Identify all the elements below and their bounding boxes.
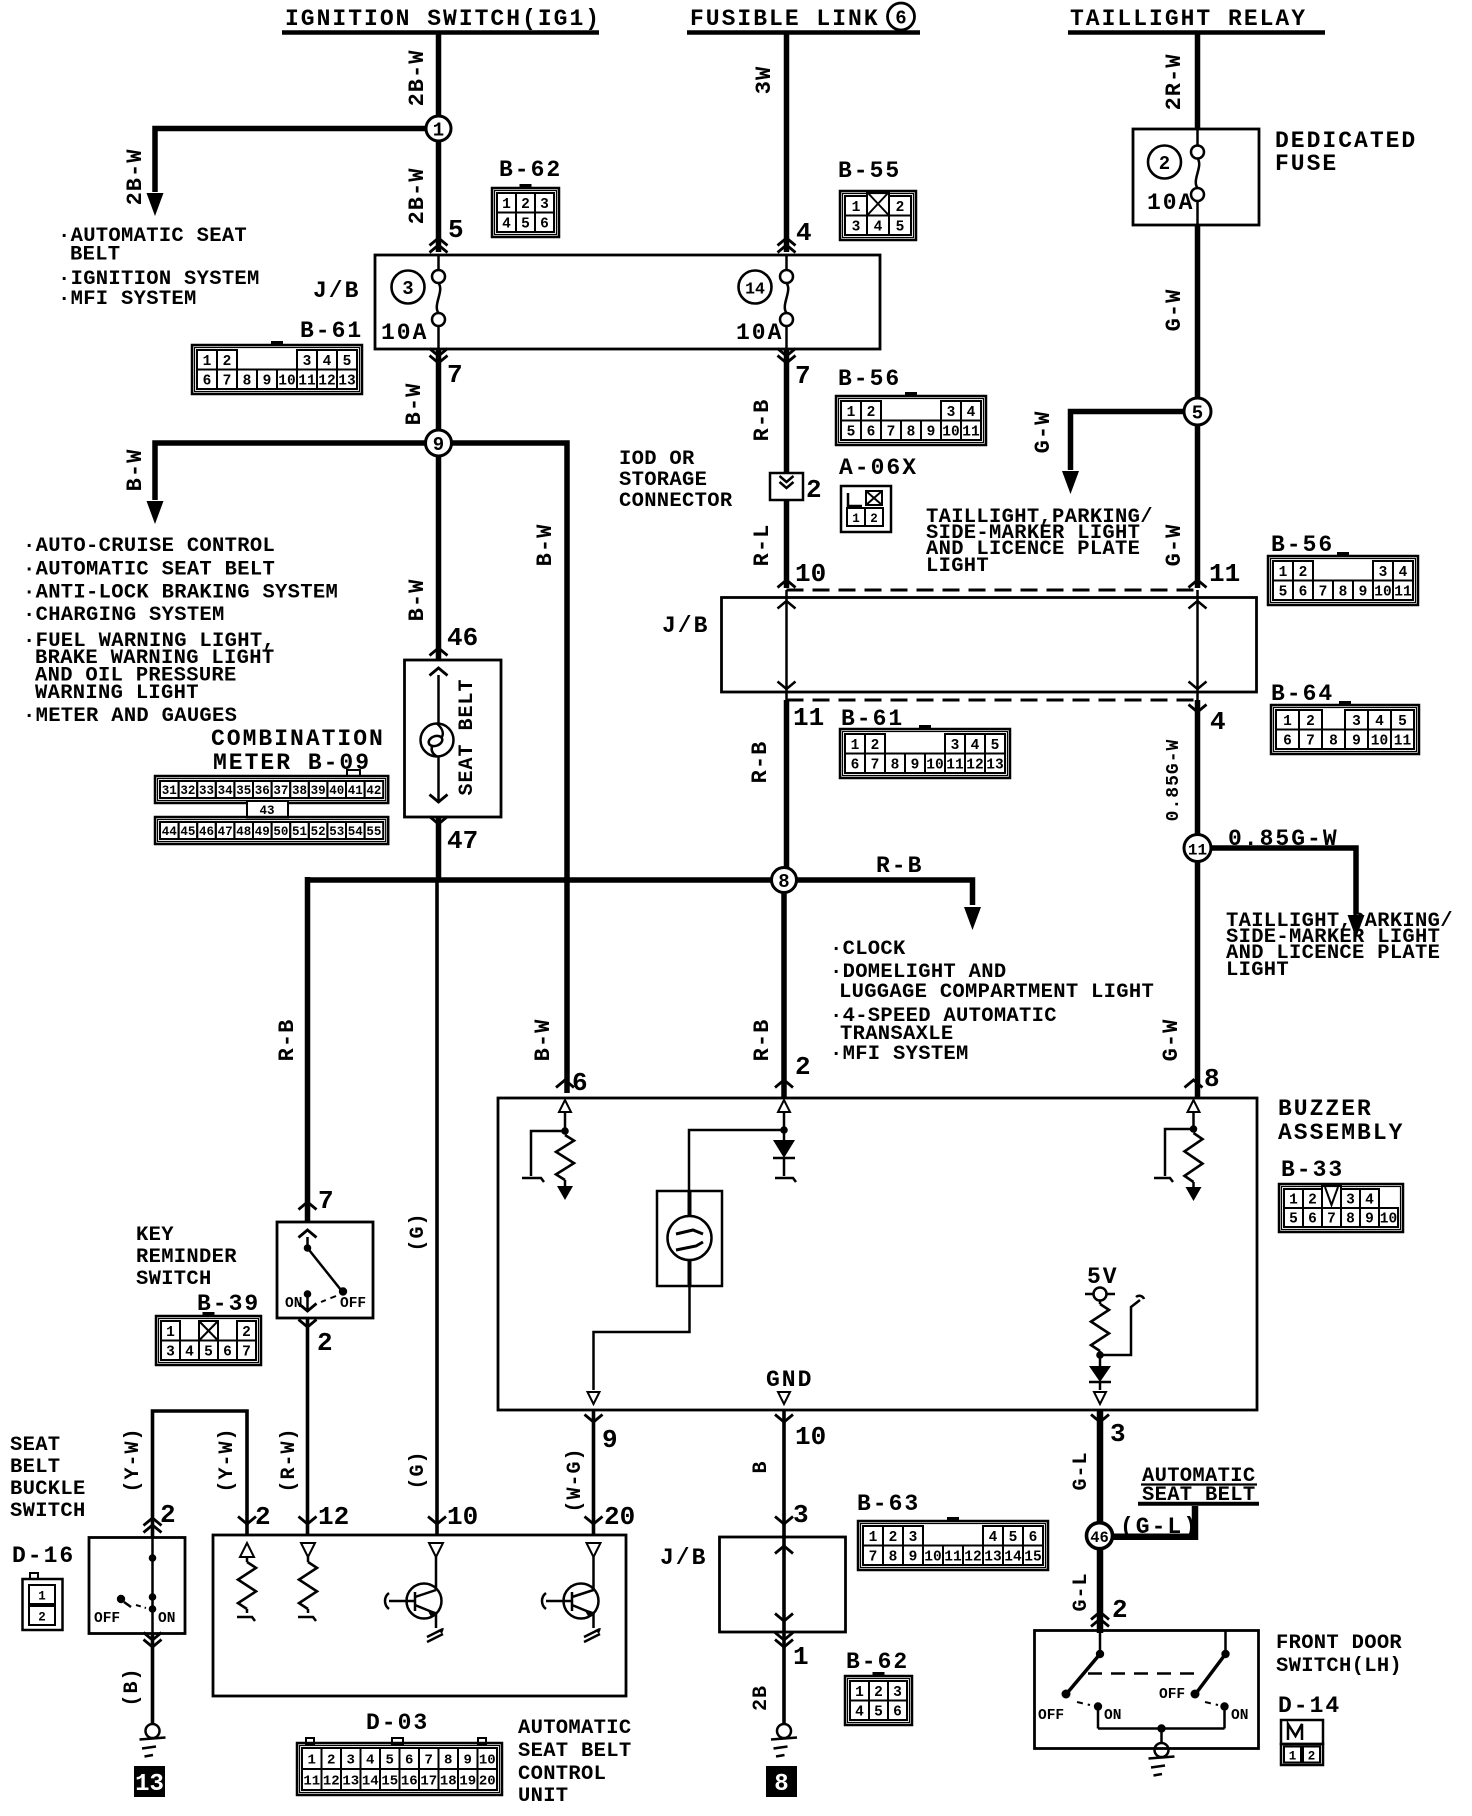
svg-text:3: 3 xyxy=(166,1344,175,1360)
component automatic seat belt control unit D-03 box xyxy=(213,1535,626,1696)
svg-text:35: 35 xyxy=(236,784,251,798)
svg-text:2: 2 xyxy=(806,475,822,505)
svg-text:12: 12 xyxy=(966,757,983,773)
svg-text:7: 7 xyxy=(1306,733,1315,749)
svg-text:4: 4 xyxy=(185,1344,194,1360)
connector B-62 outline xyxy=(492,188,559,237)
wire G-W fuse to node 5 xyxy=(1162,225,1198,398)
svg-text:6: 6 xyxy=(895,8,906,30)
svg-text:2: 2 xyxy=(223,354,232,370)
svg-text:47: 47 xyxy=(447,826,478,856)
connector D-16 xyxy=(23,1573,63,1630)
svg-text:8: 8 xyxy=(778,871,789,893)
connector D-03 outline xyxy=(297,1743,502,1795)
svg-text:SWITCH(LH): SWITCH(LH) xyxy=(1276,1655,1402,1678)
svg-text:·MFI SYSTEM: ·MFI SYSTEM xyxy=(58,288,197,311)
node SEAT BELT BUCKLE SWITCH label xyxy=(10,1434,86,1569)
svg-text:2: 2 xyxy=(1308,1193,1317,1209)
svg-text:·CHARGING SYSTEM: ·CHARGING SYSTEM xyxy=(23,604,225,627)
svg-text:4: 4 xyxy=(989,1530,998,1546)
svg-text:3: 3 xyxy=(1110,1419,1126,1449)
connector B-56 mid xyxy=(836,392,986,445)
svg-text:B-W: B-W xyxy=(405,579,430,622)
node IOD OR STORAGE CONNECTOR label xyxy=(619,448,733,513)
svg-text:R-L: R-L xyxy=(750,524,775,567)
svg-text:J/B: J/B xyxy=(660,1545,707,1571)
svg-text:2: 2 xyxy=(1306,714,1315,730)
svg-text:7: 7 xyxy=(871,757,880,773)
svg-text:7: 7 xyxy=(1319,584,1328,600)
svg-text:4: 4 xyxy=(323,354,332,370)
svg-text:10: 10 xyxy=(447,1502,478,1532)
svg-text:R-B: R-B xyxy=(748,741,773,784)
buzzer lamp (seat belt warning) xyxy=(657,1191,722,1286)
svg-text:2: 2 xyxy=(1299,565,1308,581)
svg-text:5: 5 xyxy=(521,216,530,232)
svg-text:1: 1 xyxy=(308,1753,316,1769)
svg-text:3: 3 xyxy=(1379,565,1388,581)
svg-text:LUGGAGE COMPARTMENT LIGHT: LUGGAGE COMPARTMENT LIGHT xyxy=(839,981,1154,1004)
svg-text:11: 11 xyxy=(962,424,980,440)
svg-text:IGNITION SWITCH(IG1): IGNITION SWITCH(IG1) xyxy=(285,6,601,32)
svg-text:9: 9 xyxy=(263,373,272,389)
svg-text:BELT: BELT xyxy=(10,1456,60,1479)
svg-text:3: 3 xyxy=(793,1500,809,1530)
svg-text:4: 4 xyxy=(796,218,812,248)
svg-text:IOD OR: IOD OR xyxy=(619,448,695,471)
D-03 transistor 2 (pin 20) xyxy=(542,1543,601,1642)
svg-text:3: 3 xyxy=(1352,714,1361,730)
svg-text:1: 1 xyxy=(851,738,860,754)
svg-text:6: 6 xyxy=(851,757,860,773)
svg-text:KEY: KEY xyxy=(136,1224,174,1247)
connector B-62 (top) label xyxy=(499,157,562,183)
svg-text:AUTOMATIC: AUTOMATIC xyxy=(518,1717,631,1740)
component BUZZER ASSEMBLY box xyxy=(498,1098,1257,1410)
svg-text:9: 9 xyxy=(911,757,920,773)
svg-text:3: 3 xyxy=(347,1753,355,1769)
connector B-62 bottom label xyxy=(846,1649,909,1675)
svg-text:14: 14 xyxy=(362,1774,379,1790)
svg-text:1: 1 xyxy=(852,200,861,216)
connector B-63 xyxy=(858,1517,1048,1570)
svg-text:OFF: OFF xyxy=(1159,1687,1185,1703)
wire G-W node 11 to buzzer pin 8 xyxy=(1159,862,1220,1099)
svg-text:2B: 2B xyxy=(750,1685,773,1711)
svg-text:R-B: R-B xyxy=(275,1019,300,1062)
connector D-03 top bumps xyxy=(306,1738,314,1744)
svg-text:10: 10 xyxy=(924,1549,941,1565)
svg-text:8: 8 xyxy=(891,757,900,773)
svg-text:SEAT BELT: SEAT BELT xyxy=(456,678,479,795)
svg-text:7: 7 xyxy=(318,1186,334,1216)
connector B-56r outline xyxy=(1268,556,1418,605)
wire B-W branch left to systems list xyxy=(123,443,426,524)
svg-text:11: 11 xyxy=(1188,842,1207,860)
svg-text:1: 1 xyxy=(1289,1750,1297,1764)
svg-text:6: 6 xyxy=(1283,733,1292,749)
connector B-39 outline xyxy=(156,1316,261,1365)
svg-text:6: 6 xyxy=(572,1068,588,1098)
svg-text:B-56: B-56 xyxy=(838,366,901,392)
svg-text:B-W: B-W xyxy=(123,449,148,492)
fuse 14 10A xyxy=(736,255,793,349)
node D-03 label xyxy=(366,1710,429,1736)
node label: taillight parking side-marker (top) xyxy=(926,506,1153,578)
svg-text:15: 15 xyxy=(381,1774,398,1790)
node FRONT DOOR SWITCH label xyxy=(1276,1632,1402,1719)
svg-text:2: 2 xyxy=(327,1753,335,1769)
svg-text:3: 3 xyxy=(1346,1193,1355,1209)
svg-text:10A: 10A xyxy=(1147,190,1194,216)
svg-text:FUSE: FUSE xyxy=(1275,151,1338,177)
svg-text:2: 2 xyxy=(255,1502,271,1532)
ground symbol (seat belt buckle) xyxy=(140,1724,166,1757)
node label list: clock, domelight... xyxy=(830,938,1154,1066)
svg-text:COMBINATION: COMBINATION xyxy=(211,726,385,752)
wire R-B branch right with arrow (clock etc) xyxy=(797,853,982,930)
svg-text:11: 11 xyxy=(944,1549,962,1565)
svg-text:10: 10 xyxy=(278,373,295,389)
seat belt warning lamp box (combination meter) xyxy=(405,660,502,817)
svg-text:B-W: B-W xyxy=(402,383,427,426)
svg-text:R-B: R-B xyxy=(750,399,775,442)
connector B-62 bottom xyxy=(845,1672,912,1725)
svg-text:7: 7 xyxy=(869,1549,878,1565)
svg-text:5: 5 xyxy=(343,354,352,370)
svg-text:10A: 10A xyxy=(736,320,783,346)
component DEDICATED FUSE box (fuse 2, 10A) xyxy=(1133,129,1259,225)
svg-text:R-B: R-B xyxy=(750,1019,775,1062)
wire B-W node 9 to seat belt pin 46 xyxy=(405,456,478,660)
svg-text:2: 2 xyxy=(1308,1750,1316,1764)
svg-text:0.85G-W: 0.85G-W xyxy=(1164,739,1184,822)
component KEY REMINDER SWITCH box xyxy=(277,1222,373,1318)
svg-text:14: 14 xyxy=(1004,1549,1022,1565)
ground symbol (J/B3) xyxy=(771,1724,797,1757)
wire 2B-W from ignition switch xyxy=(405,32,439,116)
pin 4 below J/B2 right xyxy=(1189,705,1226,738)
svg-text:14: 14 xyxy=(745,280,765,299)
connector B-56 right xyxy=(1268,552,1418,605)
connector D-03 xyxy=(297,1743,502,1795)
svg-text:D-16: D-16 xyxy=(12,1543,75,1569)
junction block J/B 3 box xyxy=(660,1537,846,1632)
svg-text:5V: 5V xyxy=(1087,1264,1119,1290)
svg-text:13: 13 xyxy=(338,373,355,389)
wire (B) to ground 13 xyxy=(121,1633,162,1724)
node 5 junction xyxy=(1184,398,1211,425)
svg-text:(Y-W): (Y-W) xyxy=(216,1427,239,1492)
svg-text:ON: ON xyxy=(1231,1708,1248,1724)
svg-text:46: 46 xyxy=(1090,1529,1109,1547)
svg-text:4: 4 xyxy=(971,738,980,754)
junction block J/B box 2 xyxy=(662,598,1257,693)
svg-text:19: 19 xyxy=(459,1774,476,1790)
svg-text:3: 3 xyxy=(893,1685,902,1701)
connector B-09 cell 43 xyxy=(247,801,288,818)
connector B-62b outline xyxy=(845,1676,912,1725)
svg-text:10: 10 xyxy=(942,424,959,440)
svg-text:ASSEMBLY: ASSEMBLY xyxy=(1278,1120,1404,1146)
fuse 3 10A xyxy=(381,255,445,349)
wire 0.85G-W to node 11 xyxy=(1164,700,1198,834)
node ground ref 8 xyxy=(766,1766,797,1798)
svg-text:A-06X: A-06X xyxy=(839,455,918,481)
svg-text:20: 20 xyxy=(479,1774,496,1790)
svg-text:B: B xyxy=(750,1460,773,1473)
svg-text:10: 10 xyxy=(1380,1212,1397,1228)
svg-text:REMINDER: REMINDER xyxy=(136,1246,237,1269)
svg-text:G-W: G-W xyxy=(1162,524,1187,567)
connector B-61m outline xyxy=(840,729,1010,778)
node IGNITION SWITCH (IG1) header xyxy=(282,6,601,33)
svg-text:CONTROL: CONTROL xyxy=(518,1763,606,1786)
svg-text:15: 15 xyxy=(1024,1549,1041,1565)
svg-text:9: 9 xyxy=(602,1425,618,1455)
svg-text:20: 20 xyxy=(604,1502,635,1532)
svg-text:2: 2 xyxy=(870,512,878,526)
svg-text:8: 8 xyxy=(1329,733,1338,749)
svg-text:B-61: B-61 xyxy=(300,318,363,344)
svg-text:36: 36 xyxy=(255,784,270,798)
svg-text:8: 8 xyxy=(1346,1212,1355,1228)
wire G-W node 5 to J/B2 pin 11 xyxy=(1162,425,1240,589)
svg-text:UNIT: UNIT xyxy=(518,1785,568,1808)
wire (G) seat belt lamp to D-03 pin 10 xyxy=(407,880,478,1535)
svg-text:7: 7 xyxy=(1327,1212,1336,1228)
svg-text:·ANTI-LOCK BRAKING SYSTEM: ·ANTI-LOCK BRAKING SYSTEM xyxy=(23,582,338,605)
svg-text:4: 4 xyxy=(366,1753,374,1769)
svg-text:3: 3 xyxy=(947,405,956,421)
svg-text:48: 48 xyxy=(236,825,251,839)
wire 3W fusible link down xyxy=(752,32,812,253)
node TAILLIGHT RELAY header xyxy=(1068,6,1325,33)
svg-text:47: 47 xyxy=(218,825,233,839)
svg-text:2: 2 xyxy=(889,1530,898,1546)
svg-text:18: 18 xyxy=(440,1774,457,1790)
svg-text:53: 53 xyxy=(329,825,344,839)
node 1 junction xyxy=(426,116,451,142)
svg-text:7: 7 xyxy=(887,424,896,440)
svg-text:B-W: B-W xyxy=(533,524,558,567)
svg-text:9: 9 xyxy=(1365,1212,1374,1228)
svg-text:6: 6 xyxy=(540,216,549,232)
svg-text:9: 9 xyxy=(909,1549,918,1565)
svg-text:4: 4 xyxy=(1365,1193,1374,1209)
svg-text:10A: 10A xyxy=(381,320,428,346)
svg-text:4: 4 xyxy=(502,216,511,232)
svg-text:WARNING LIGHT: WARNING LIGHT xyxy=(35,682,199,705)
svg-text:12: 12 xyxy=(323,1774,340,1790)
wire R-B node 8 down to buzzer pin 2 xyxy=(750,893,811,1099)
svg-text:2: 2 xyxy=(896,200,905,216)
pin 11 (B-61) below J/B2 xyxy=(793,703,904,733)
svg-text:7: 7 xyxy=(447,360,463,390)
svg-text:CONNECTOR: CONNECTOR xyxy=(619,490,733,513)
svg-text:51: 51 xyxy=(292,825,307,839)
svg-text:ON: ON xyxy=(285,1296,302,1312)
svg-text:49: 49 xyxy=(255,825,270,839)
svg-text:OFF: OFF xyxy=(94,1611,120,1627)
svg-text:7: 7 xyxy=(425,1753,433,1769)
wire 2B-W node1 to J/B pin 5 xyxy=(405,141,464,253)
svg-text:GND: GND xyxy=(766,1367,813,1393)
svg-text:42: 42 xyxy=(366,784,381,798)
svg-text:2: 2 xyxy=(160,1500,176,1530)
component seat belt buckle switch D-16 box xyxy=(89,1538,185,1634)
svg-text:2B-W: 2B-W xyxy=(405,168,430,225)
connector B-09 combination meter xyxy=(155,776,388,803)
svg-text:12: 12 xyxy=(318,1502,349,1532)
svg-text:13: 13 xyxy=(342,1774,359,1790)
svg-text:TAILLIGHT RELAY: TAILLIGHT RELAY xyxy=(1070,6,1307,32)
svg-text:2: 2 xyxy=(871,738,880,754)
svg-text:B-62: B-62 xyxy=(499,157,562,183)
svg-text:OFF: OFF xyxy=(1038,1708,1064,1724)
svg-text:5: 5 xyxy=(847,424,856,440)
svg-text:B-64: B-64 xyxy=(1271,681,1334,707)
connector B-55 label xyxy=(838,158,901,184)
svg-text:6: 6 xyxy=(1308,1212,1317,1228)
svg-text:11: 11 xyxy=(303,1774,320,1790)
front door switch right pole xyxy=(1159,1631,1248,1729)
connector B-62 top xyxy=(492,184,559,237)
buzzer pin 8 interior: resistor xyxy=(1154,1100,1203,1201)
svg-text:ON: ON xyxy=(158,1611,175,1627)
svg-text:11: 11 xyxy=(946,757,964,773)
svg-text:46: 46 xyxy=(199,825,214,839)
svg-text:45: 45 xyxy=(180,825,195,839)
svg-text:5: 5 xyxy=(1279,584,1288,600)
svg-text:BUZZER: BUZZER xyxy=(1278,1096,1373,1122)
svg-text:12: 12 xyxy=(964,1549,981,1565)
svg-text:2B-W: 2B-W xyxy=(405,50,430,107)
svg-text:6: 6 xyxy=(203,373,212,389)
D-03 resistor 2 (pin 12) xyxy=(298,1543,317,1621)
svg-text:1: 1 xyxy=(166,1325,175,1341)
wire R-B branch left down to key reminder switch xyxy=(275,877,334,1222)
svg-text:1: 1 xyxy=(847,405,856,421)
svg-text:13: 13 xyxy=(986,757,1003,773)
junction block J/B 2 dashed bus bottom xyxy=(787,699,1198,702)
svg-text:4: 4 xyxy=(1399,565,1408,581)
svg-text:(Y-W): (Y-W) xyxy=(122,1427,145,1492)
connector B-61 left xyxy=(192,341,362,394)
svg-text:11: 11 xyxy=(1394,584,1412,600)
svg-text:2: 2 xyxy=(317,1328,333,1358)
svg-text:·METER AND GAUGES: ·METER AND GAUGES xyxy=(23,705,237,728)
svg-text:(R-W): (R-W) xyxy=(278,1427,301,1492)
svg-text:OFF: OFF xyxy=(340,1296,366,1312)
svg-text:3: 3 xyxy=(852,219,861,235)
connector B-09 outline xyxy=(155,776,388,803)
svg-text:32: 32 xyxy=(180,784,195,798)
connector B-09b outline xyxy=(155,817,388,844)
node label list: auto-cruise etc xyxy=(23,535,338,728)
svg-text:5: 5 xyxy=(1289,1212,1298,1228)
svg-text:8: 8 xyxy=(1204,1064,1220,1094)
connector B-55 outline xyxy=(840,191,916,240)
connector B-64 label xyxy=(1271,681,1334,707)
svg-text:8: 8 xyxy=(889,1549,898,1565)
svg-text:1: 1 xyxy=(433,120,444,142)
svg-text:2B-W: 2B-W xyxy=(123,149,148,206)
D-03 resistor 1 (pin 2) xyxy=(237,1543,256,1621)
node ground ref 13 xyxy=(134,1766,165,1798)
junction block J/B box 1 xyxy=(313,255,880,349)
svg-text:1: 1 xyxy=(502,197,511,213)
svg-text:5: 5 xyxy=(991,738,1000,754)
svg-text:38: 38 xyxy=(292,784,307,798)
svg-text:3: 3 xyxy=(909,1530,918,1546)
connector B-63 label xyxy=(857,1491,920,1517)
svg-text:D-14: D-14 xyxy=(1278,1693,1341,1719)
svg-text:8: 8 xyxy=(774,1771,788,1798)
svg-text:D-03: D-03 xyxy=(366,1710,429,1736)
svg-text:11: 11 xyxy=(1209,559,1240,589)
svg-text:17: 17 xyxy=(420,1774,437,1790)
svg-text:9: 9 xyxy=(433,434,444,456)
svg-text:44: 44 xyxy=(162,825,178,839)
svg-text:2: 2 xyxy=(1159,153,1170,175)
svg-text:B-33: B-33 xyxy=(1281,1157,1344,1183)
svg-text:FUSIBLE LINK: FUSIBLE LINK xyxy=(690,6,880,32)
svg-text:G-L: G-L xyxy=(1070,1572,1093,1611)
node BUZZER ASSEMBLY label xyxy=(1278,1096,1404,1183)
svg-text:4: 4 xyxy=(855,1704,864,1720)
node label: taillight parking (bottom right) xyxy=(1226,910,1453,982)
node 8 junction xyxy=(308,868,797,894)
svg-text:7: 7 xyxy=(242,1344,251,1360)
svg-text:·MFI SYSTEM: ·MFI SYSTEM xyxy=(830,1043,969,1066)
wire inside J/B2 right xyxy=(1189,590,1207,700)
connector B-61 mid xyxy=(840,725,1010,778)
buzzer pin 10 B wire to J/B3 xyxy=(750,1410,826,1536)
svg-text:1: 1 xyxy=(203,354,212,370)
svg-text:5: 5 xyxy=(204,1344,213,1360)
svg-text:3: 3 xyxy=(951,738,960,754)
svg-text:4: 4 xyxy=(1375,714,1384,730)
buzzer 5V supply with resistor and diode xyxy=(1085,1264,1144,1404)
svg-text:SEAT BELT: SEAT BELT xyxy=(518,1740,631,1763)
wire inside J/B2 left xyxy=(778,590,796,700)
svg-text:B-62: B-62 xyxy=(846,1649,909,1675)
svg-text:3: 3 xyxy=(402,278,413,300)
svg-text:5: 5 xyxy=(1398,714,1407,730)
wire 2R-W taillight relay down xyxy=(1162,32,1198,129)
svg-text:(G): (G) xyxy=(407,1450,430,1489)
connector B-64 outline xyxy=(1271,705,1419,754)
svg-text:4: 4 xyxy=(874,219,883,235)
component FRONT DOOR SWITCH (LH) box xyxy=(1035,1631,1259,1749)
svg-text:11: 11 xyxy=(793,703,824,733)
connector B-63 outline xyxy=(858,1521,1048,1570)
svg-text:4: 4 xyxy=(1210,707,1226,737)
svg-text:2R-W: 2R-W xyxy=(1162,54,1187,111)
svg-text:J/B: J/B xyxy=(662,613,709,639)
svg-text:B-W: B-W xyxy=(531,1019,556,1062)
svg-text:2: 2 xyxy=(867,405,876,421)
svg-text:1: 1 xyxy=(38,1590,46,1604)
svg-text:FRONT DOOR: FRONT DOOR xyxy=(1276,1632,1402,1655)
svg-text:·CLOCK: ·CLOCK xyxy=(830,938,906,961)
wire lamp to pin 9 gnd xyxy=(588,1286,690,1404)
wire (Y-W) branch xyxy=(122,1411,271,1537)
svg-text:16: 16 xyxy=(401,1774,418,1790)
svg-text:5: 5 xyxy=(448,215,464,245)
svg-text:40: 40 xyxy=(329,784,344,798)
